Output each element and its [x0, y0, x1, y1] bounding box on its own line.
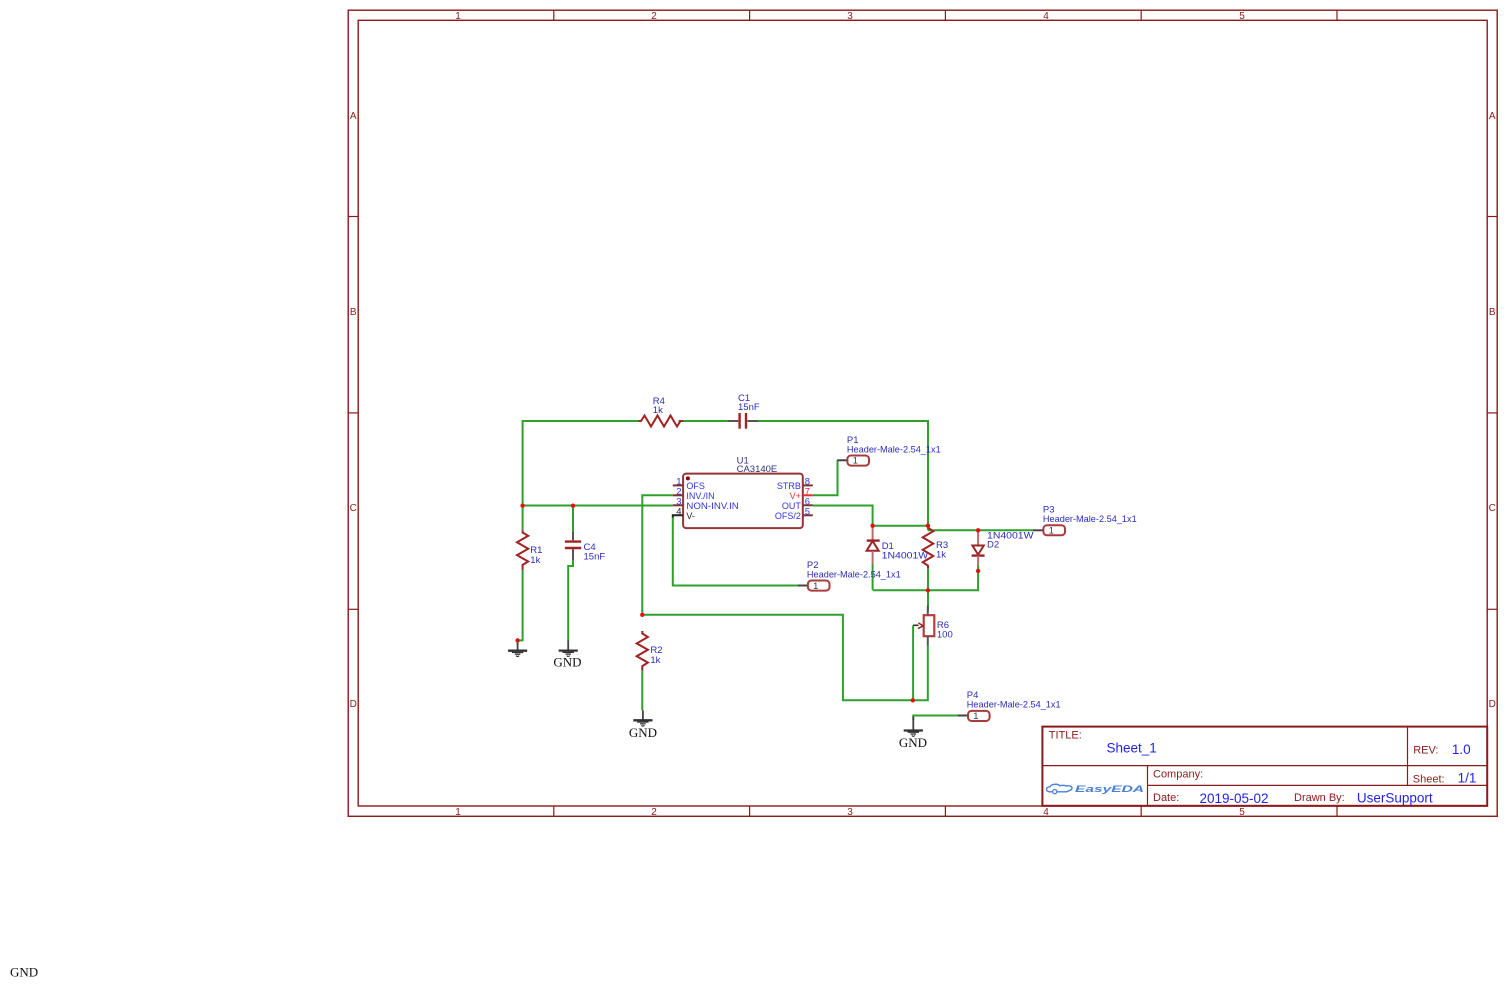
junction node D2 bottom [976, 569, 980, 573]
svg-text:TITLE:: TITLE: [1049, 730, 1082, 742]
capacitor C1 [728, 393, 760, 429]
svg-text:5: 5 [1239, 11, 1245, 22]
svg-text:1: 1 [853, 456, 858, 466]
svg-text:GND: GND [10, 964, 38, 979]
header P3 [1033, 505, 1137, 536]
svg-text:1/1: 1/1 [1458, 771, 1477, 786]
svg-text:Header-Male-2.54_1x1: Header-Male-2.54_1x1 [1043, 514, 1137, 525]
svg-text:C: C [350, 503, 357, 514]
potentiometer R6 [913, 606, 953, 646]
wire net V- pin4 to P2 [673, 517, 798, 586]
svg-text:5: 5 [1239, 807, 1245, 818]
svg-text:Drawn By:: Drawn By: [1294, 792, 1345, 804]
svg-text:2: 2 [651, 11, 657, 22]
wire net non-inverting input: R1/C4 junctions to pin3 [523, 505, 673, 507]
svg-text:Sheet:: Sheet: [1413, 774, 1445, 786]
title block texts [1049, 730, 1477, 806]
ground under R1 [508, 643, 527, 657]
wire net V+ pin7 to P1 [813, 460, 838, 495]
diode D2 [972, 530, 1034, 565]
junction node R3 bottom [926, 588, 930, 592]
junction node D2 top [976, 528, 980, 532]
header P2 [798, 560, 901, 591]
svg-text:C: C [1489, 503, 1496, 514]
svg-text:1N4001W: 1N4001W [882, 551, 929, 562]
resistor R4 [639, 396, 684, 427]
svg-text:1k: 1k [530, 555, 540, 566]
U1 pin stubs right [803, 485, 813, 515]
wire net diode bottom rail [873, 565, 979, 611]
svg-text:Date:: Date: [1153, 792, 1179, 804]
wire net P4 / GND branch [913, 716, 957, 721]
U1 pin stubs left [673, 485, 683, 517]
svg-text:1: 1 [455, 11, 461, 22]
EasyEDA logo [1046, 784, 1144, 794]
svg-text:OFS/2: OFS/2 [775, 511, 801, 521]
svg-text:4: 4 [1043, 807, 1049, 818]
resistor R2 [637, 631, 663, 671]
junction node R1 ground [515, 638, 519, 642]
frame column numbers top [455, 11, 1245, 22]
svg-text:B: B [1489, 307, 1496, 318]
svg-text:V+: V+ [790, 491, 801, 501]
svg-text:2: 2 [651, 807, 657, 818]
junction node R1/pin3 [520, 504, 524, 508]
junction node R2/wiper [640, 613, 644, 617]
svg-text:D2: D2 [987, 539, 999, 550]
op-amp U1 [673, 455, 813, 528]
svg-text:D: D [1489, 699, 1496, 710]
svg-text:REV:: REV: [1413, 744, 1438, 756]
svg-text:GND: GND [553, 655, 581, 670]
svg-text:1k: 1k [653, 405, 663, 416]
junction node wiper/bottom rail [911, 698, 915, 702]
svg-text:CA3140E: CA3140E [737, 464, 778, 475]
resistor R1 [517, 530, 542, 570]
svg-text:1: 1 [973, 711, 978, 721]
svg-text:Header-Male-2.54_1x1: Header-Male-2.54_1x1 [967, 699, 1061, 710]
header P4 [958, 690, 1061, 721]
frame outer border [348, 10, 1497, 816]
svg-text:EasyEDA: EasyEDA [1075, 784, 1144, 794]
svg-text:Company:: Company: [1153, 769, 1203, 781]
svg-text:1k: 1k [936, 550, 946, 561]
frame row letters right [1489, 111, 1496, 710]
frame row letters left [350, 111, 357, 710]
svg-text:1: 1 [455, 807, 461, 818]
svg-text:GND: GND [899, 735, 927, 750]
svg-text:5: 5 [805, 506, 810, 517]
svg-text:UserSupport: UserSupport [1357, 791, 1433, 806]
svg-text:1k: 1k [650, 655, 660, 666]
ground under P4 junction with GND label [899, 717, 927, 750]
svg-text:3: 3 [847, 11, 853, 22]
junction node R3 top [926, 524, 930, 528]
wire net feedback top: R1 top to C1/R4 line and down to OUT node [523, 421, 928, 526]
svg-text:OUT: OUT [782, 501, 802, 511]
svg-text:OFS: OFS [686, 481, 705, 491]
junction node D1 top [870, 524, 874, 528]
svg-text:NON-INV.IN: NON-INV.IN [686, 501, 738, 511]
svg-text:3: 3 [847, 807, 853, 818]
svg-text:2019-05-02: 2019-05-02 [1200, 791, 1269, 806]
svg-text:GND: GND [629, 725, 657, 740]
diode D1 [867, 526, 929, 565]
wire C4 top and bottom [568, 506, 573, 641]
ground under R2 with GND label [629, 710, 657, 740]
svg-text:B: B [350, 307, 357, 318]
wire R1 bottom to ground [518, 506, 523, 645]
svg-text:INV./IN: INV./IN [686, 491, 714, 501]
svg-text:1: 1 [1049, 526, 1054, 536]
svg-text:1: 1 [813, 581, 818, 591]
ground under C4 with GND label [553, 641, 581, 670]
header P1 [837, 435, 941, 466]
svg-text:100: 100 [937, 629, 953, 640]
wire net inverting input: pin2 to R2 top junction [642, 495, 673, 615]
junction node C4/pin3 [571, 504, 575, 508]
frame column numbers bottom [455, 807, 1245, 818]
svg-text:Header-Male-2.54_1x1: Header-Male-2.54_1x1 [807, 569, 901, 580]
svg-text:V-: V- [686, 511, 695, 521]
title block [1042, 727, 1487, 806]
svg-text:D: D [350, 699, 357, 710]
svg-text:15nF: 15nF [584, 552, 606, 563]
svg-text:4: 4 [676, 506, 681, 517]
svg-text:4: 4 [1043, 11, 1049, 22]
resistor R3 [923, 528, 948, 569]
svg-text:1.0: 1.0 [1452, 742, 1471, 757]
wire net OUT: pin6 to D1, R3, D2, P3 [813, 506, 1033, 531]
U1 pin numbers [676, 476, 681, 517]
svg-text:15nF: 15nF [738, 402, 760, 413]
wire R2 bottom to ground [641, 671, 643, 711]
svg-text:A: A [1489, 111, 1496, 122]
frame ticks [348, 10, 1497, 816]
U1 pin names [686, 481, 738, 521]
svg-text:A: A [350, 111, 357, 122]
capacitor C4 [565, 532, 605, 563]
svg-text:Sheet_1: Sheet_1 [1107, 741, 1157, 756]
wire net R2/R6 wiper [642, 615, 928, 701]
svg-text:STRB: STRB [777, 481, 801, 491]
svg-text:Header-Male-2.54_1x1: Header-Male-2.54_1x1 [847, 444, 941, 455]
